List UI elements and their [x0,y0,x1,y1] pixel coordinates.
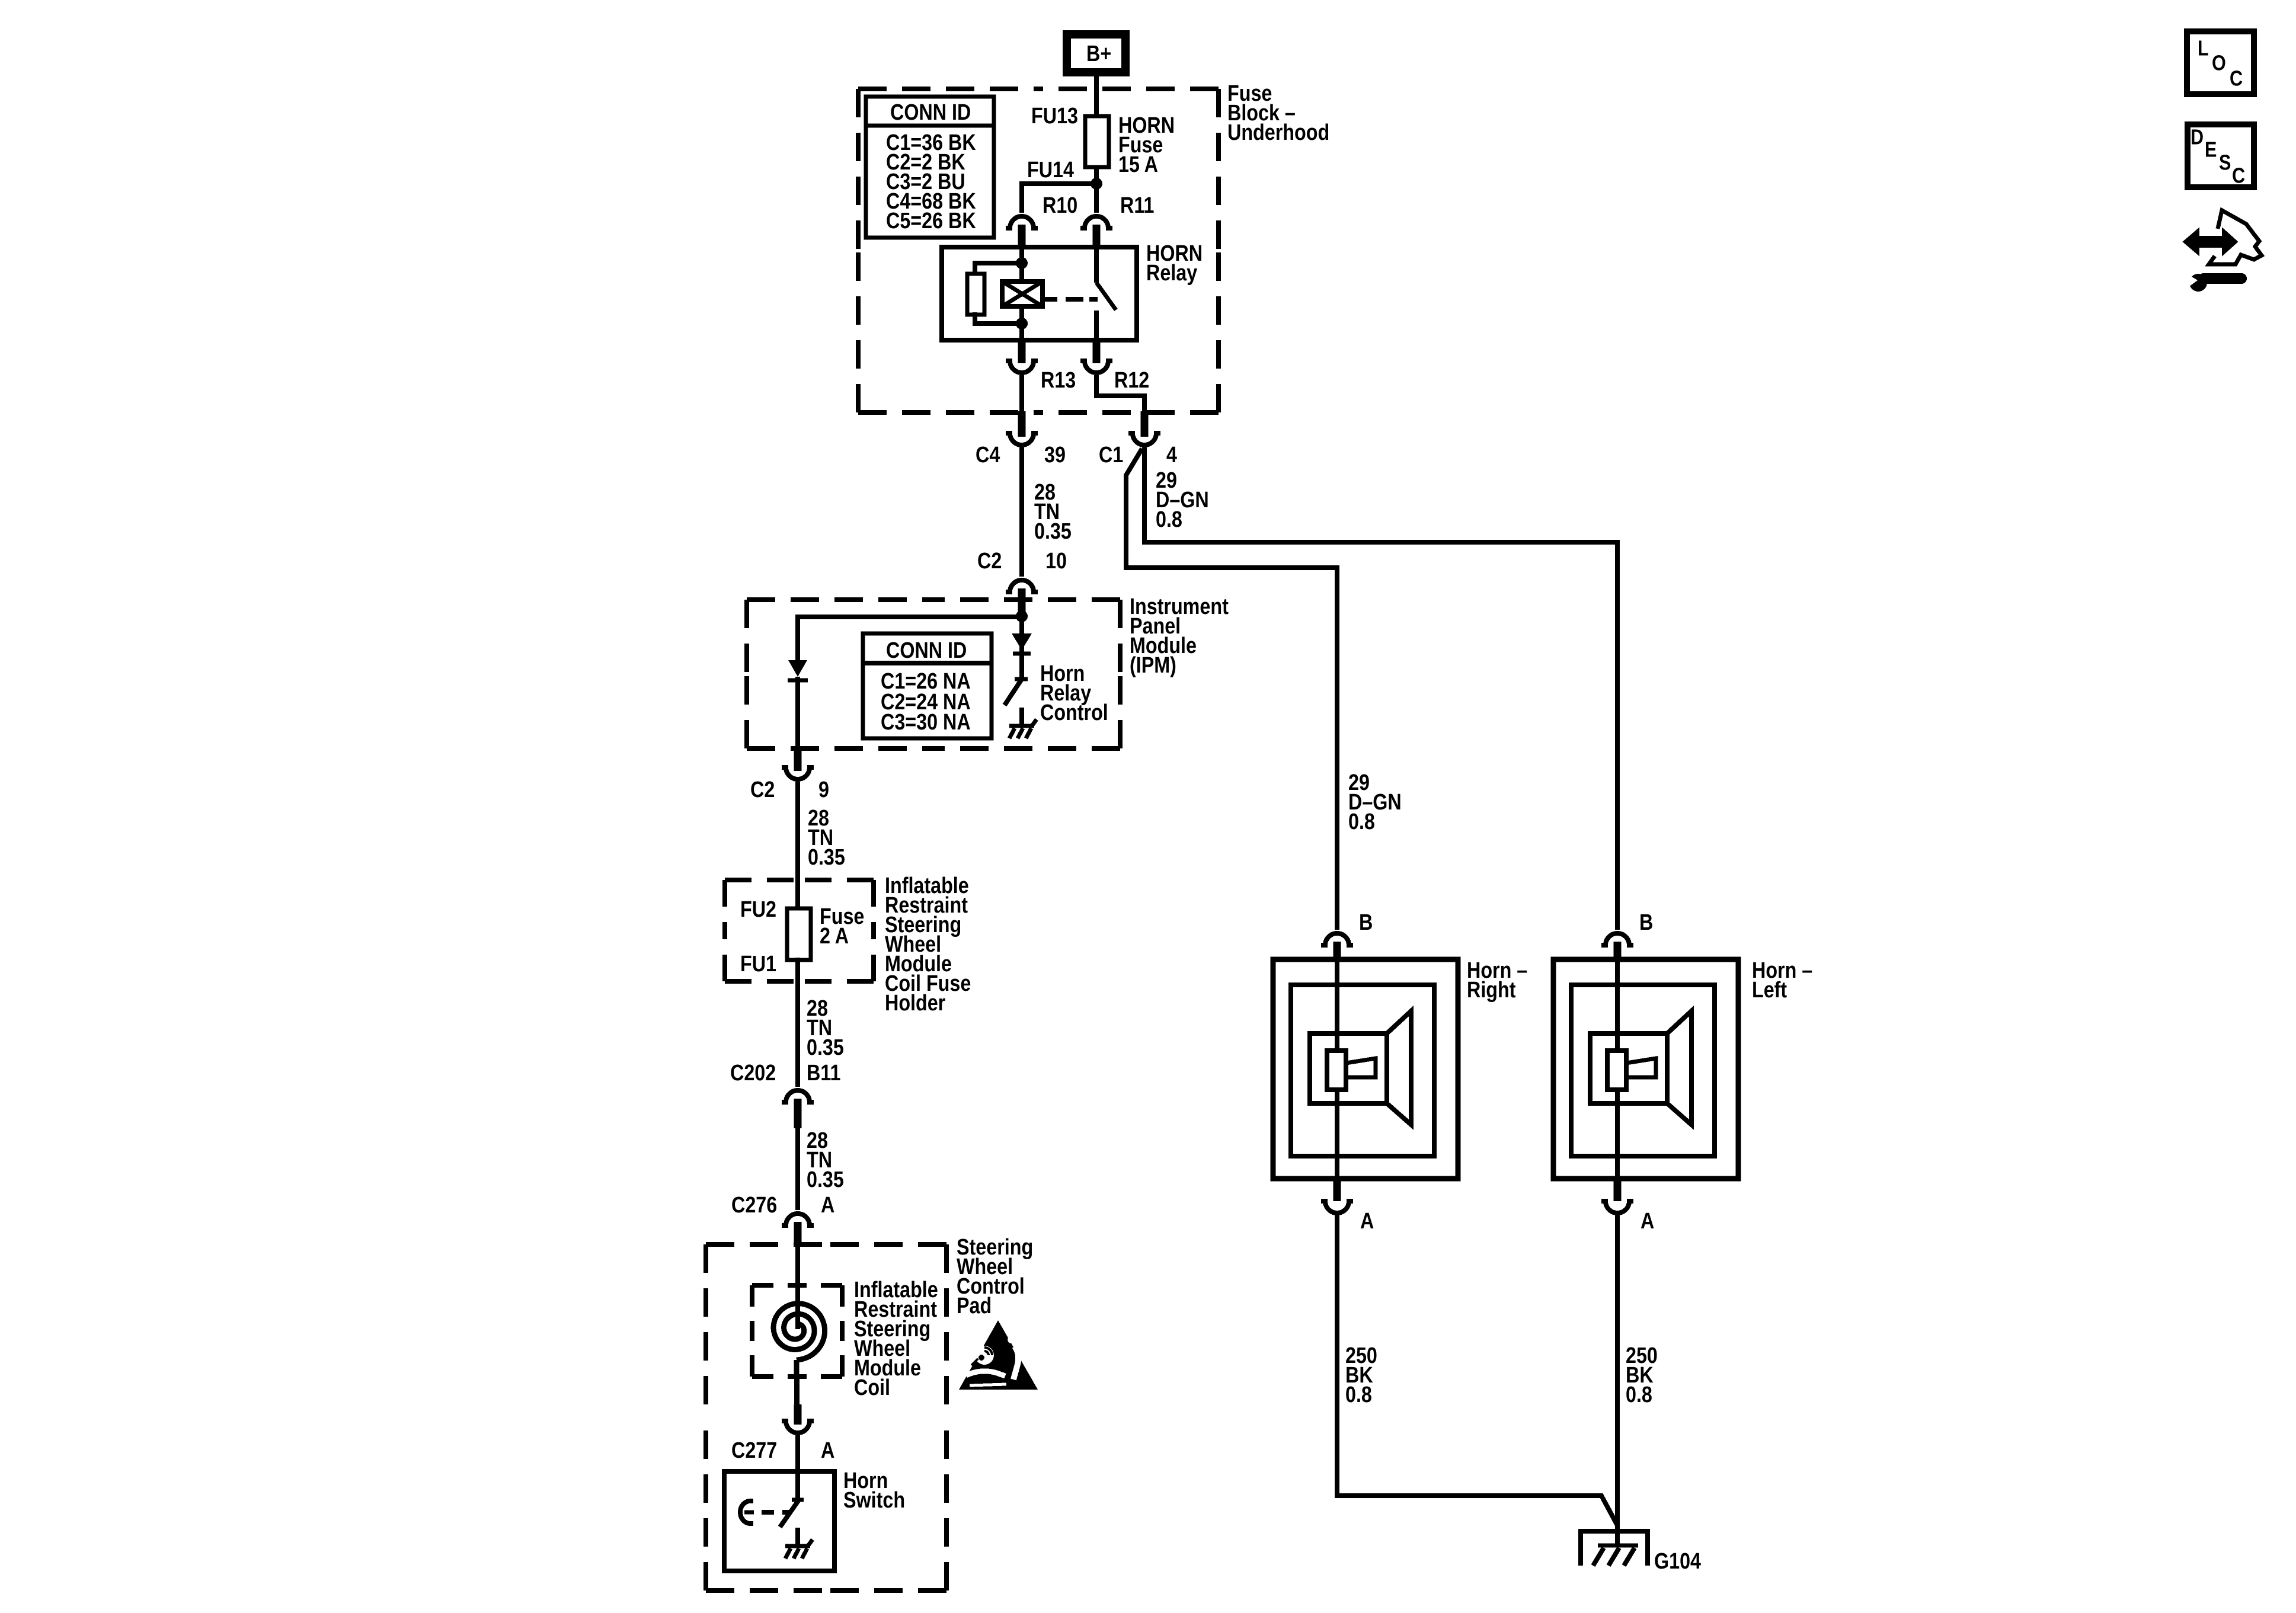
wire B+ to fuse FU13 [1094,76,1099,184]
diode (left branch) [788,660,807,677]
svg-text:C1=36 BKC2=2 BKC3=2 BUC4=68 BK: C1=36 BKC2=2 BKC3=2 BUC4=68 BKC5=26 BK [886,130,976,233]
fuse 2A [787,908,811,960]
svg-text:4: 4 [1166,443,1177,468]
svg-text:FU14: FU14 [1027,158,1074,183]
horn speaker symbol left [1667,1011,1691,1125]
connector R12 [1093,340,1101,363]
wire 28 TN 0.35 (to fuse holder) [795,782,800,911]
switch (horn relay control driver) [1015,677,1028,681]
clockspring spiral coil [773,1304,825,1360]
svg-text:C3=30 NA: C3=30 NA [881,710,971,735]
switch blade (horn switch) [792,1498,804,1502]
svg-text:B+: B+ [1086,41,1111,66]
wire into coil [795,1244,800,1329]
B+ battery feed box [1067,34,1125,72]
svg-text:S: S [2219,151,2231,175]
svg-text:C276: C276 [731,1193,777,1218]
svg-text:10: 10 [1045,549,1067,574]
svg-text:C202: C202 [730,1061,776,1086]
connector A (horn right) [1334,1179,1341,1201]
connector B (horn right) [1321,933,1353,945]
mechanical link dashes [1044,297,1057,302]
wire FU14 branch [1022,184,1096,213]
svg-text:HORNRelay: HORNRelay [1146,241,1203,286]
connector R10 [1006,216,1038,228]
horn switch wire [795,1474,800,1500]
svg-text:G104: G104 [1654,1549,1701,1574]
horn left boxes [1553,959,1738,1179]
node coil bottom [1016,318,1028,329]
connector C4 pin 39 [1018,411,1026,437]
SIR coil dashed box [752,1283,797,1288]
SIR warning triangle [959,1320,1038,1390]
actuator link dashes [762,1510,774,1515]
wire horn right to ground [1337,1215,1618,1526]
svg-text:R12: R12 [1114,368,1149,393]
svg-text:O: O [2212,52,2226,75]
connector C277 pin A [794,1404,802,1425]
horn switch box [724,1471,834,1571]
svg-text:C: C [2232,164,2245,188]
wire below fuse [795,958,800,1087]
steering wheel control pad dashed box [706,1242,826,1247]
svg-text:A: A [821,1193,834,1218]
svg-text:C277: C277 [731,1438,777,1463]
svg-text:39: 39 [1044,443,1066,468]
node coil top [1016,257,1028,269]
wire horn left to ground [1615,1215,1620,1545]
svg-text:L: L [2198,37,2209,60]
svg-text:C4: C4 [976,443,1000,468]
svg-text:CONN ID: CONN ID [890,100,971,125]
fuse block underhood dashed box [858,87,1038,91]
swap/repair icon: wrench [2189,274,2207,292]
wire 28 TN 0.35 (C4 to IPM) [1019,447,1024,577]
svg-text:FU2: FU2 [740,897,776,922]
wire R12 jog [1096,375,1144,413]
svg-text:A: A [1641,1209,1654,1234]
horn speaker symbol right [1387,1011,1411,1125]
connector B (horn left) [1601,933,1633,945]
connector R13 [1018,340,1026,363]
svg-text:B11: B11 [807,1061,840,1086]
connector C202 pin B11 [782,1090,814,1102]
LOC icon box [2187,31,2254,94]
ground (horn switch internal) [795,1528,800,1544]
pushbutton actuator [740,1501,753,1524]
svg-text:C: C [2230,67,2243,91]
relay coil branch wire [1019,247,1024,340]
junction node FU13/FU14 [1091,178,1102,190]
connector C2 pin 10 (IPM input) [1006,580,1038,592]
HORN relay box [942,247,1137,340]
svg-text:FU1: FU1 [740,952,776,977]
horn right boxes [1273,959,1458,1179]
relay switch [1094,247,1099,283]
svg-text:CONN ID: CONN ID [886,638,967,663]
connector C2 pin 9 (IPM output) [794,751,802,771]
svg-text:A: A [821,1438,834,1463]
svg-text:D: D [2191,126,2204,149]
connector R11 [1094,186,1099,213]
relay coil (box with X) [1002,281,1043,306]
wire C1 to horn left (upper run) [1144,447,1617,930]
svg-text:R10: R10 [1043,193,1077,218]
svg-text:B: B [1359,910,1373,935]
connector C276 pin A [782,1214,814,1225]
inflatable restraint fuse holder dashed box [725,878,800,882]
svg-text:A: A [1360,1209,1374,1234]
svg-text:B: B [1639,910,1653,935]
wire C1 to horn right (lower run) [1126,449,1337,930]
ground G104 [1581,1531,1648,1566]
svg-text:FU13: FU13 [1031,104,1078,129]
DESC icon box [2188,124,2254,187]
svg-text:C2: C2 [977,549,1002,574]
ground (IPM internal) [1019,708,1024,724]
swap/repair icon: connector outline [2209,210,2262,264]
resistor (relay) [975,263,1022,276]
instrument panel module dashed box [747,597,933,602]
wire IPM branch to C2-9 [798,617,1022,661]
swap/repair icon: double arrow [2185,231,2236,252]
svg-text:C1: C1 [1099,443,1123,468]
svg-text:C2: C2 [750,777,775,802]
CONN ID table (IPM) [863,633,992,738]
node IPM input [1016,610,1028,622]
connector A (horn left) [1614,1179,1622,1201]
fuse FU13 HORN Fuse 15A [1085,116,1109,167]
svg-text:E: E [2205,138,2217,162]
svg-text:9: 9 [818,777,829,802]
connector C1 pin 4 [1141,411,1149,437]
svg-text:R13: R13 [1041,368,1076,393]
diode (horn relay control) [1019,616,1024,679]
svg-text:R11: R11 [1120,193,1154,218]
CONN ID table (fuse block) [866,97,994,238]
